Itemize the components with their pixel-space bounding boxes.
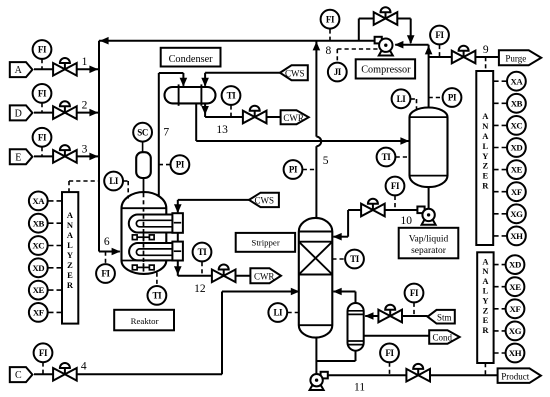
wire: lower analyzer lead XD [494,264,506,266]
wire: condenser cooling water out to CWR (stream 13) [204,104,206,118]
arrow stream 10 into stripper [333,233,342,241]
wire: condensate out of reboiler [364,335,430,337]
flag CWS reactor [249,193,279,207]
svg-text:D: D [15,109,22,120]
wire: feed header vertical (streams 1-3 join, down to reactor) [98,41,100,252]
wire: lower analyzer lead XE [494,286,506,288]
condenser tube sheet left [178,84,180,105]
svg-text:CWR: CWR [254,271,275,281]
svg-text:5: 5 [323,155,329,167]
wire: purge line stream 9 [429,56,452,58]
svg-text:Product: Product [501,371,529,381]
indicator XD upper [507,138,526,157]
svg-text:1: 1 [82,56,88,68]
svg-text:A: A [482,256,489,266]
tag feed A [10,62,33,77]
indicator XD left [29,258,48,277]
indicator JI compressor [328,63,347,82]
svg-text:13: 13 [216,124,228,136]
svg-text:7: 7 [163,127,169,139]
wire: TI lead reactor bottom [156,273,158,286]
svg-text:XF: XF [511,187,522,197]
svg-text:Y: Y [482,151,488,161]
indicator TI reactor [148,286,167,305]
wire: reactor overhead stream 7 to condenser [158,73,160,197]
wire: FI lead purge [439,45,441,57]
svg-text:FI: FI [101,269,110,279]
svg-text:Reaktor: Reaktor [131,316,159,326]
svg-text:XD: XD [510,143,522,153]
flag CWS condenser [280,65,308,80]
tag feed C [10,367,33,382]
indicator XG upper [507,204,526,223]
svg-text:FI: FI [38,132,47,142]
svg-text:Z: Z [482,161,488,171]
wire: compressor suction line [395,44,428,46]
svg-text:PI: PI [176,160,185,170]
arrow bypass rejoining suction [407,35,415,44]
wire: FI lead product [389,363,391,376]
wire: SC to agitator drive [142,142,144,152]
wire: product line stream 11 [328,374,498,376]
svg-text:XA: XA [510,76,523,86]
arrow stream 4 into stripper [291,288,300,296]
svg-text:XE: XE [511,165,523,175]
indicator XF upper [507,182,526,201]
svg-text:FI: FI [38,45,47,55]
svg-text:N: N [482,266,489,276]
indicator XF lower [506,299,525,318]
wire: PI lead separator [429,97,443,99]
indicator XH upper [507,227,526,246]
svg-text:FI: FI [435,30,444,40]
valve feed A [53,58,77,76]
svg-text:Z: Z [483,305,489,315]
indicator LI reactor [104,172,123,191]
agitator drive cylinder [136,152,151,178]
wire: PI lead stream 5 [303,169,317,171]
indicator FI feed C [34,343,53,362]
svg-text:TI: TI [153,291,163,301]
svg-text:R: R [67,280,74,290]
wire: CWS to reactor coil [178,199,249,201]
reactor cooling coil upper [129,215,178,233]
svg-text:separator: separator [411,246,447,256]
svg-text:TI: TI [198,247,208,257]
vap/liquid separator vessel [410,108,448,188]
reboiler [348,303,364,351]
indicator XE left [29,281,48,300]
wire: separator vapour riser to compressor [428,45,430,108]
condenser shell [165,87,216,103]
tag feed D [10,105,33,120]
arrow boilup into stripper [333,288,342,296]
svg-text:PI: PI [448,93,457,103]
svg-text:A: A [482,111,489,121]
valve 8 (compressor bypass) [374,7,398,25]
svg-text:A: A [482,276,489,286]
indicator PI separator [443,88,462,107]
arrow on separator riser [425,46,433,55]
svg-text:FI: FI [391,181,400,191]
flag Product [498,368,541,383]
flag CWR condenser [281,110,309,124]
wire: left analyzer lead XD [49,267,63,269]
arrow stream 5 joining recycle [313,42,321,51]
indicator LI separator [392,89,411,108]
indicator LI stripper [268,303,287,322]
svg-text:A: A [482,131,489,141]
svg-text:FI: FI [385,348,394,358]
svg-text:E: E [483,315,489,325]
flag Stm [428,310,455,324]
wire: JI lead compressor (dashed) [336,49,338,62]
wire: left analyzer lead XF [49,311,63,313]
svg-text:L: L [483,286,489,296]
wire: upper analyzer lead XC [494,124,507,126]
wire: left analyzer lead XB [49,222,63,224]
valve steam [378,305,402,323]
svg-text:Z: Z [67,260,73,270]
svg-text:XA: XA [32,196,45,206]
svg-text:L: L [67,240,73,250]
pump P-strip [310,372,328,390]
arrow stream 2 into header [89,109,98,117]
svg-text:XF: XF [510,304,521,314]
svg-text:A: A [67,210,74,220]
wire: feed A line stream 1 [34,68,98,70]
svg-text:XG: XG [510,209,523,219]
svg-text:FI: FI [38,89,47,99]
svg-text:FI: FI [326,14,335,24]
svg-text:LI: LI [273,308,283,318]
indicator XF left [29,303,48,322]
svg-text:TI: TI [227,91,237,101]
valve 10 (separator liquid) [361,199,385,217]
wire: stripper overhead stream 5 riser [315,41,317,137]
wire: FI lead feed C [42,362,44,374]
wire: agitator shaft to reactor [143,178,145,194]
wire: reactor coil interconnect [177,233,179,242]
stripper column [299,218,333,338]
valve feed D [53,101,77,119]
indicator FI feed A [33,40,52,59]
pump P-sep [417,207,435,225]
svg-text:E: E [67,270,73,280]
indicator FI recycle [321,10,340,29]
agitator impeller lower [132,263,154,271]
wire: TI lead condenser [230,105,232,117]
wire: FI lead feed E [41,147,43,156]
wire: steam line to reboiler [402,315,427,317]
svg-text:4: 4 [81,361,87,373]
analyzer left box [62,192,78,324]
reactor coil head upper [172,213,183,233]
svg-text:SC: SC [137,127,148,137]
analyzer right upper box [476,71,493,245]
stripper packing X [299,242,333,275]
indicator FI stream 6 [96,264,115,283]
wire: upper analyzer lead XE [494,169,507,171]
svg-text:TI: TI [350,254,360,264]
arrow stream 7 into condenser shell [180,78,188,87]
svg-text:XE: XE [509,282,521,292]
indicator XE lower [506,277,525,296]
svg-text:10: 10 [400,215,412,227]
svg-text:6: 6 [104,236,110,248]
svg-text:FI: FI [410,288,419,298]
svg-text:Vap/liquid: Vap/liquid [409,235,449,245]
indicator FI product [380,344,399,363]
agitator impeller upper [132,233,154,241]
indicator XA left [29,192,48,211]
svg-text:Compressor: Compressor [361,65,411,76]
arrow on recycle into feed header [100,37,109,45]
wire: boilup return from reboiler to stripper [355,292,357,304]
svg-text:XD: XD [509,260,521,270]
svg-text:PI: PI [289,165,298,175]
wire: analyzer upper sample tap (dashed) [485,57,487,71]
valve feed E [53,145,77,163]
wire: reactor feed stream 6 [99,251,120,253]
wire: TI lead reactor CW [201,262,203,276]
label box Vap/liquid separator [399,228,459,258]
indicator TI reactor CW out [193,243,212,262]
condenser tube sheet right [200,84,202,105]
wire: LI lead separator [411,98,417,100]
valve 12 (reactor CW) [212,265,236,283]
wire: LI lead reactor [123,180,128,182]
wire: recycle line stream 8 (compressor discharge to feed header) [99,40,375,42]
svg-text:XE: XE [33,285,45,295]
wire: left analyzer lead XE [49,289,63,291]
svg-text:XD: XD [32,263,44,273]
indicator XB left [29,214,48,233]
arrow on CW outlet [201,106,209,115]
svg-text:N: N [482,121,489,131]
svg-text:R: R [482,325,489,335]
label box Condenser [161,48,221,67]
arrow condensate into separator [400,137,409,145]
indicator FI steam [405,284,424,303]
wire: lower analyzer lead XG [494,330,506,332]
svg-text:8: 8 [326,45,332,57]
svg-text:Y: Y [482,295,488,305]
arrow stream 3 into header [89,153,98,161]
reactor coil head lower [172,242,183,261]
svg-text:TI: TI [382,152,392,162]
wire: analyzer left sample tap (dashed) [69,180,98,182]
indicator FI feed D [33,84,52,103]
svg-text:XC: XC [510,121,522,131]
indicator TI separator [377,148,396,167]
agitator shaft (dashed) [143,193,145,266]
svg-text:Condenser: Condenser [169,54,214,65]
indicator FI stream 10 [386,177,405,196]
svg-text:FI: FI [39,348,48,358]
svg-text:LI: LI [109,176,119,186]
svg-text:12: 12 [194,283,206,295]
valve 13 (condenser CW) [243,106,267,124]
wire: lower analyzer lead XH [494,352,506,354]
indicator SC agitator [133,123,152,142]
svg-text:11: 11 [354,381,365,393]
arrow steam into reboiler [365,312,374,320]
wire hop: stream 5 riser over condensate line [316,137,321,147]
wire: analyzer lower sample tap (dashed) [484,363,486,375]
svg-text:CWS: CWS [255,196,275,206]
svg-text:XG: XG [509,326,522,336]
svg-text:2: 2 [82,99,88,111]
indicator XC left [29,236,48,255]
wire: upper analyzer lead XA [494,80,507,82]
wire: FI lead stream 10 [394,196,396,210]
svg-text:9: 9 [483,44,489,56]
flag Cond [429,330,459,343]
label box Reaktor [114,310,174,331]
wire: reboiler drain to bottoms [355,351,357,361]
arrow CWS into reactor coil head [174,204,182,213]
wire: CWS to condenser [205,72,280,74]
label box Stripper [236,233,295,252]
arrow CWS into condenser head [201,78,209,87]
svg-text:L: L [482,141,488,151]
indicator PI reactor [171,155,190,174]
wire: TI lead separator [396,156,410,158]
svg-text:Purge: Purge [505,53,526,63]
flag CWR reactor [250,268,281,283]
wire: condensate line from condenser to separator [195,103,197,141]
arrow into compressor [395,41,404,49]
wire: feed E line stream 3 [34,155,98,157]
wire: lower analyzer lead XF [494,308,506,310]
wire: left analyzer lead XC [49,245,63,247]
wire: LI lead stripper [288,312,299,314]
indicator XD lower [506,255,525,274]
svg-text:CWR: CWR [283,113,304,123]
wire: FI lead steam [413,303,415,316]
svg-text:R: R [482,181,489,191]
svg-text:A: A [67,230,74,240]
valve 9 (purge) [452,46,476,64]
wire: compressor bypass loop [358,19,360,41]
wire: FI lead stream 6 [105,252,107,264]
wire: upper analyzer lead XH [494,235,507,237]
wire: upper analyzer lead XF [494,191,507,193]
wire: feed C line stream 4 to stripper [34,373,222,375]
wire: left analyzer lead XA [49,200,63,202]
svg-text:3: 3 [82,143,88,155]
compressor rotor [375,37,393,56]
analyzer right lower box [477,252,493,363]
valve 11 (product) [406,364,430,382]
wire: TI lead stripper [332,258,345,260]
wire: separator liquid stream 10 to stripper [428,187,430,209]
wire: feed D line stream 2 [34,112,98,114]
indicator XG lower [506,322,525,341]
svg-text:E: E [482,171,488,181]
wire: FI lead recycle [329,29,331,40]
wire: FI lead feed A [41,59,43,69]
svg-text:Y: Y [67,250,73,260]
svg-text:XB: XB [33,218,45,228]
svg-text:XB: XB [511,98,523,108]
svg-text:N: N [67,220,74,230]
svg-text:XH: XH [509,348,522,358]
indicator XC upper [507,116,526,135]
wire: upper analyzer lead XG [494,213,507,215]
flag Purge [499,50,541,65]
svg-text:XF: XF [33,308,44,318]
wire: FI lead feed D [41,103,43,113]
valve feed C [53,363,77,381]
arrow stream 1 into header [89,66,98,74]
reactor vessel [122,192,167,274]
svg-text:Stripper: Stripper [251,238,279,248]
svg-text:LI: LI [397,94,407,104]
svg-text:CWS: CWS [285,68,305,78]
svg-text:XH: XH [510,231,523,241]
wire: upper analyzer lead XD [494,147,507,149]
wire: PI lead reactor [159,164,170,166]
svg-text:JI: JI [334,67,342,77]
wire: stripper bottoms to pump [315,338,317,374]
indicator TI condenser [222,86,241,105]
reactor cooling coil lower [129,243,178,260]
svg-text:C: C [15,370,22,381]
arrow stream 6 into reactor [112,248,121,256]
indicator XE upper [507,160,526,179]
svg-text:Cond: Cond [433,333,453,343]
svg-text:A: A [15,65,23,76]
indicator XH lower [506,344,525,363]
indicator XB upper [507,94,526,113]
arrow on reactor CW outlet [174,266,182,275]
indicator PI stream 5 [284,160,303,179]
wire: reactor coil outlet to CWR (stream 12) [177,261,179,276]
indicator FI purge [430,26,449,45]
svg-text:Stm: Stm [437,312,452,322]
svg-text:XC: XC [32,241,44,251]
svg-text:E: E [15,152,21,163]
indicator FI feed E [33,128,52,147]
indicator XA upper [507,72,526,91]
indicator TI stripper [345,250,364,269]
wire: upper analyzer lead XB [494,102,507,104]
tag feed E [10,149,33,164]
label box Compressor [356,59,415,78]
